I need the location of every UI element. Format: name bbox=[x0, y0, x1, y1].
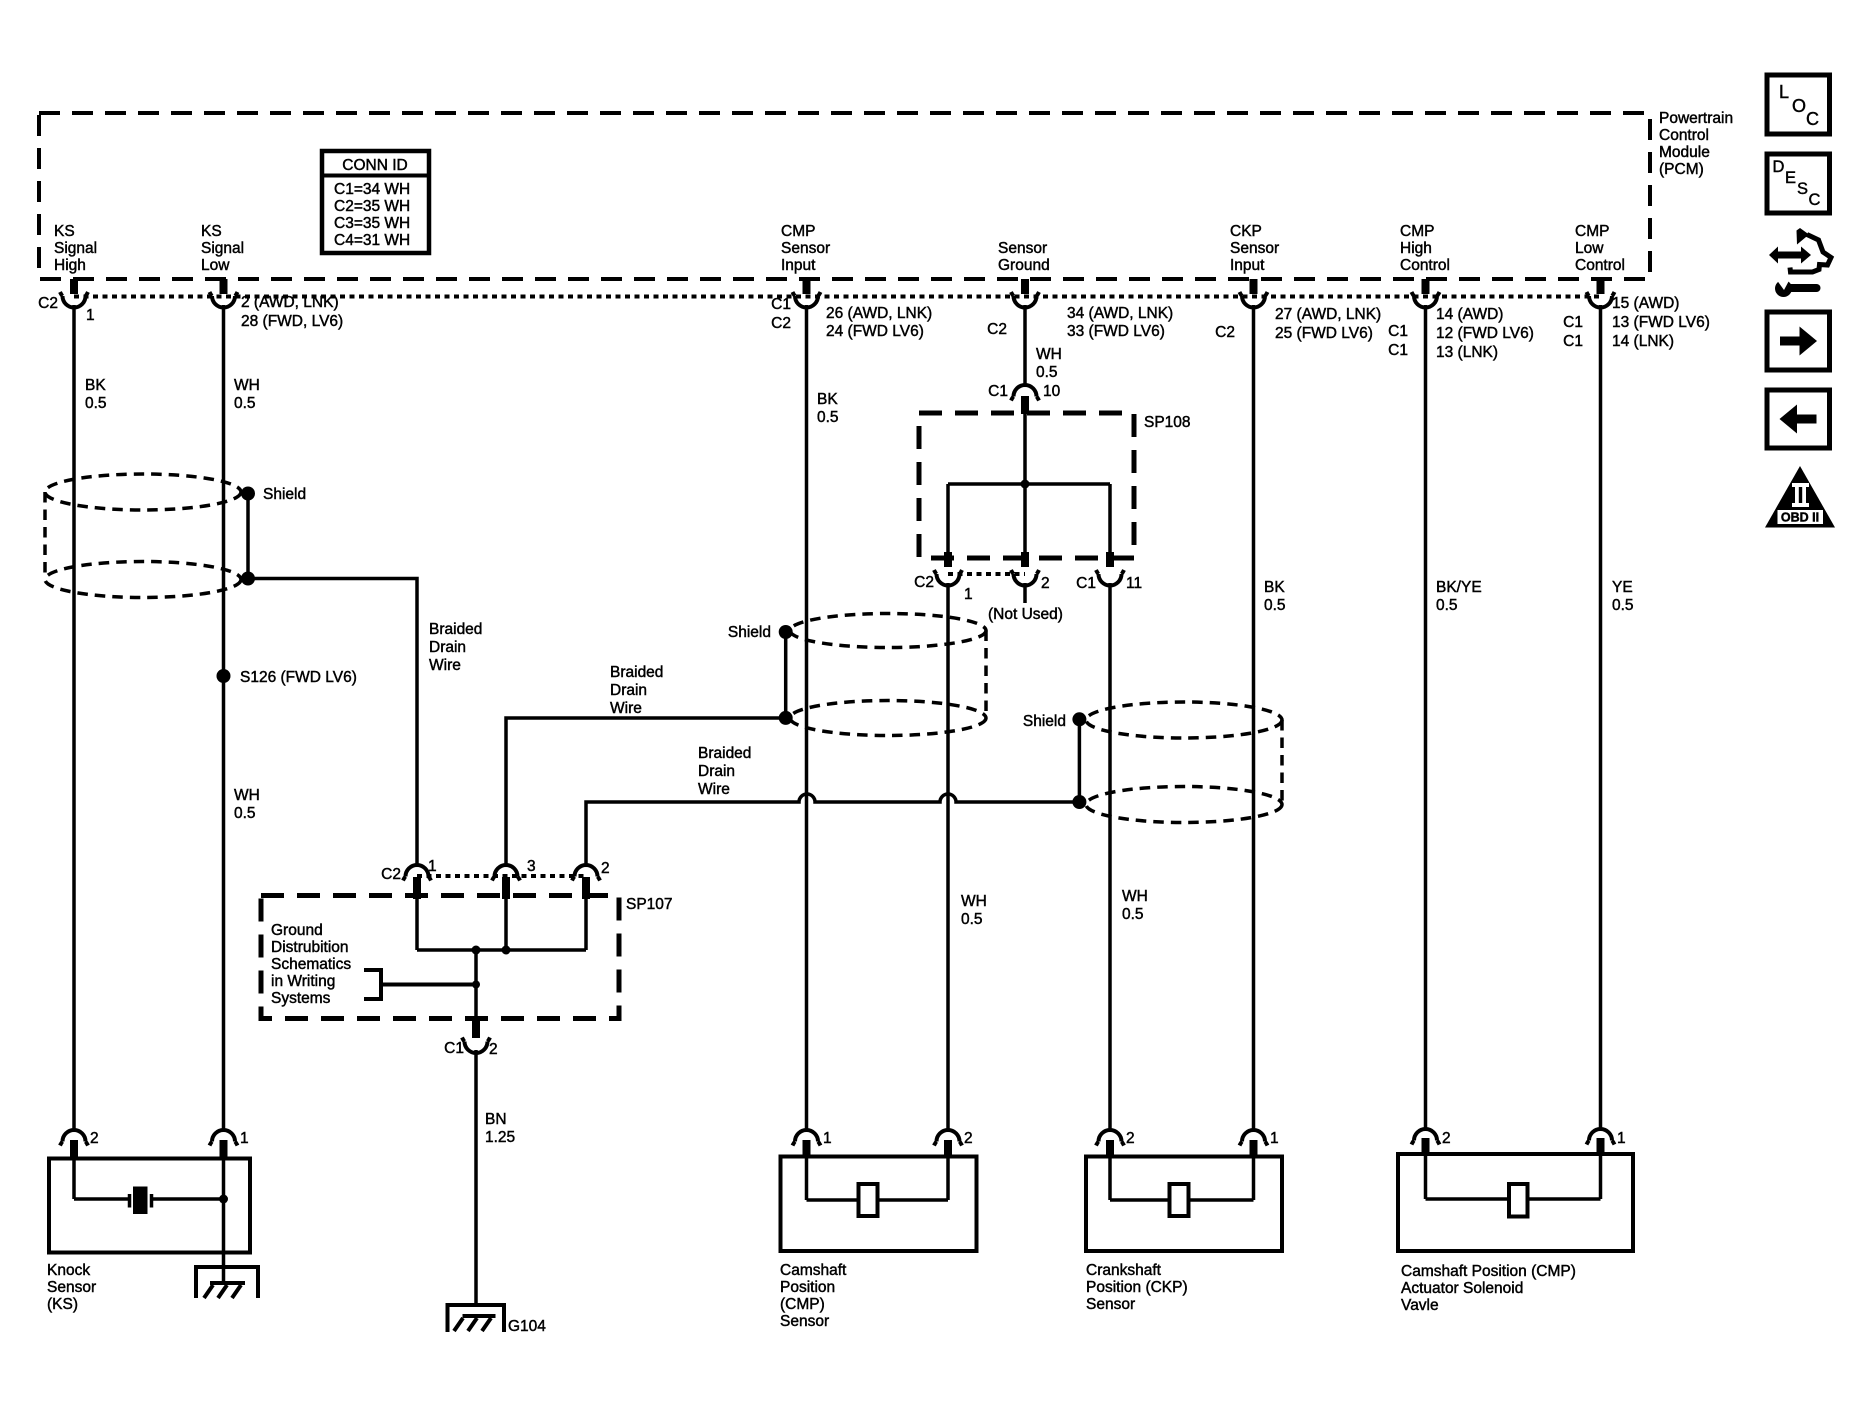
SP108 output pin C1-11 bbox=[1106, 552, 1114, 567]
svg-text:0.5: 0.5 bbox=[1036, 364, 1058, 381]
svg-text:Drain: Drain bbox=[610, 682, 647, 699]
svg-text:0.5: 0.5 bbox=[234, 805, 256, 822]
PCM connector pin C1 14/12/13 (CMP High Control) bbox=[1388, 279, 1534, 361]
svg-text:2: 2 bbox=[1442, 1130, 1451, 1147]
svg-text:C1: C1 bbox=[1076, 575, 1096, 592]
svg-text:Module: Module bbox=[1659, 144, 1710, 161]
CMP shield node dot (top) bbox=[779, 625, 793, 639]
svg-text:L: L bbox=[1779, 82, 1789, 102]
CMP Sensor connector terminal 2 bbox=[934, 1130, 973, 1157]
wire actuator internal horizontal right bbox=[1528, 1197, 1601, 1201]
pin function label CMP High Control bbox=[1400, 223, 1450, 274]
svg-text:C2: C2 bbox=[1215, 324, 1235, 341]
KS shield node dot (top) bbox=[241, 487, 255, 501]
KS cable shield dashed cylinder bbox=[45, 474, 241, 598]
svg-text:1: 1 bbox=[823, 1130, 832, 1147]
solenoid element bbox=[1509, 1184, 1528, 1217]
pin function label CMP Low Control bbox=[1575, 223, 1625, 274]
pin function label Sensor Ground bbox=[998, 240, 1050, 274]
wire SP108 left branch bbox=[946, 484, 950, 552]
svg-text:Knock: Knock bbox=[47, 1262, 90, 1279]
SP108 connector terminal 2 (Not Used) bbox=[1011, 570, 1050, 592]
svg-text:0.5: 0.5 bbox=[1436, 597, 1458, 614]
SP107 output connector C1 terminal 2 bbox=[444, 1021, 497, 1058]
label Camshaft Position (CMP) Sensor bbox=[780, 1262, 847, 1330]
svg-text:Signal: Signal bbox=[201, 240, 244, 257]
svg-text:C1: C1 bbox=[1563, 314, 1583, 331]
svg-text:C2: C2 bbox=[914, 574, 934, 591]
svg-text:KS: KS bbox=[201, 223, 222, 240]
svg-text:High: High bbox=[54, 257, 86, 274]
svg-text:CONN ID: CONN ID bbox=[342, 157, 407, 174]
svg-text:SP107: SP107 bbox=[626, 896, 673, 913]
SP108 connector C1 terminal 11 bbox=[1076, 570, 1142, 592]
svg-text:Distrubition: Distrubition bbox=[271, 939, 349, 956]
svg-text:Input: Input bbox=[1230, 257, 1265, 274]
svg-text:12 (FWD LV6): 12 (FWD LV6) bbox=[1436, 325, 1534, 342]
svg-text:C2=35 WH: C2=35 WH bbox=[334, 198, 410, 215]
svg-text:(PCM): (PCM) bbox=[1659, 161, 1704, 178]
svg-text:OBD II: OBD II bbox=[1781, 511, 1819, 525]
PCM connector pin C1/C2 26/24 (CMP Sensor Input) bbox=[771, 279, 932, 340]
svg-text:Low: Low bbox=[1575, 240, 1604, 257]
wire between CKP shield dots bbox=[1078, 719, 1082, 802]
svg-text:24 (FWD LV6): 24 (FWD LV6) bbox=[826, 323, 924, 340]
svg-text:C1: C1 bbox=[1388, 323, 1408, 340]
svg-text:2: 2 bbox=[489, 1041, 498, 1058]
svg-text:Wire: Wire bbox=[429, 657, 461, 674]
svg-text:1.25: 1.25 bbox=[485, 1129, 515, 1146]
wire label WH 0.5 bbox=[1036, 346, 1062, 381]
svg-text:13 (FWD LV6): 13 (FWD LV6) bbox=[1612, 314, 1710, 331]
KS shield node dot (bottom) bbox=[241, 572, 255, 586]
svg-text:11: 11 bbox=[1126, 575, 1142, 592]
svg-text:CMP: CMP bbox=[1575, 223, 1609, 240]
svg-text:D: D bbox=[1773, 158, 1785, 176]
svg-text:BN: BN bbox=[485, 1111, 507, 1128]
svg-text:C4=31 WH: C4=31 WH bbox=[334, 232, 410, 249]
svg-text:Shield: Shield bbox=[728, 624, 771, 641]
SP107 connector face dotted line bbox=[417, 874, 586, 878]
svg-text:(CMP): (CMP) bbox=[780, 1296, 825, 1313]
Knock Sensor connector terminal 1 bbox=[210, 1130, 249, 1159]
PCM module dashed box U1 bbox=[39, 113, 1650, 279]
CKP cable shield dashed cylinder bbox=[1086, 702, 1282, 823]
wire CKP internal horizontal left bbox=[1110, 1198, 1170, 1202]
wire CMP Sensor Input bbox=[805, 305, 809, 1129]
svg-text:2: 2 bbox=[601, 860, 610, 877]
svg-text:S: S bbox=[1797, 180, 1808, 198]
label Camshaft Position (CMP) Actuator Solenoid Vavle bbox=[1401, 1263, 1576, 1314]
svg-text:Ground: Ground bbox=[998, 257, 1050, 274]
svg-text:SP108: SP108 bbox=[1144, 414, 1191, 431]
svg-text:1: 1 bbox=[86, 307, 95, 324]
svg-text:Braided: Braided bbox=[429, 621, 482, 638]
wire label WH 0.5 bbox=[1122, 888, 1148, 923]
svg-text:Drain: Drain bbox=[698, 763, 735, 780]
svg-text:C1: C1 bbox=[988, 383, 1008, 400]
svg-text:C2: C2 bbox=[771, 315, 791, 332]
svg-text:2: 2 bbox=[1126, 1130, 1135, 1147]
svg-text:3: 3 bbox=[527, 858, 536, 875]
junction at KS pin 1 wire bbox=[219, 1195, 228, 1204]
svg-text:C2: C2 bbox=[381, 866, 401, 883]
svg-text:Signal: Signal bbox=[54, 240, 97, 257]
svg-text:Position: Position bbox=[780, 1279, 835, 1296]
svg-text:Shield: Shield bbox=[263, 486, 306, 503]
svg-text:BK/YE: BK/YE bbox=[1436, 579, 1482, 596]
junction in SP108 bbox=[1021, 480, 1030, 489]
svg-text:WH: WH bbox=[1122, 888, 1148, 905]
svg-text:Crankshaft: Crankshaft bbox=[1086, 1262, 1162, 1279]
svg-text:YE: YE bbox=[1612, 579, 1633, 596]
SP107 input connector terminal 3 bbox=[492, 858, 536, 899]
braided drain wire from CMP shield to SP107 terminal 3 bbox=[506, 718, 786, 864]
svg-text:2: 2 bbox=[964, 1130, 973, 1147]
piezo crystal element left plate bbox=[128, 1194, 132, 1208]
wire SP107 junction bus bbox=[417, 948, 586, 952]
pin function label CMP Sensor Input bbox=[781, 223, 830, 274]
svg-text:WH: WH bbox=[234, 787, 260, 804]
svg-text:Braided: Braided bbox=[610, 664, 663, 681]
CKP shield node dot (bottom) bbox=[1072, 795, 1086, 809]
note text Ground Distrubition Schematics in Writing Systems bbox=[271, 922, 351, 1007]
SP108 output pin 2 bbox=[1021, 552, 1029, 567]
svg-text:2: 2 bbox=[90, 1130, 99, 1147]
wire SP108 branch bus bbox=[948, 482, 1110, 486]
pin function label KS Signal High bbox=[54, 223, 97, 274]
wire label WH 0.5 bbox=[961, 893, 987, 928]
CMP Actuator connector terminal 2 bbox=[1412, 1129, 1451, 1156]
svg-text:C1: C1 bbox=[1388, 342, 1408, 359]
icon OBD II triangle bbox=[1765, 466, 1835, 528]
not used stub wire bbox=[1023, 583, 1027, 603]
svg-text:C1: C1 bbox=[771, 296, 791, 313]
svg-text:C: C bbox=[1809, 191, 1821, 209]
svg-text:Input: Input bbox=[781, 257, 816, 274]
wire sensor ground inside SP108 bbox=[1023, 413, 1027, 558]
svg-text:Vavle: Vavle bbox=[1401, 1297, 1439, 1314]
svg-text:13 (LNK): 13 (LNK) bbox=[1436, 344, 1498, 361]
wire CKP internal horizontal right bbox=[1189, 1198, 1254, 1202]
ground G104 bbox=[448, 1305, 547, 1335]
junction at terminal 3 drop bbox=[502, 946, 511, 955]
icon back arrow box bbox=[1767, 390, 1830, 448]
wire label BN 1.25 bbox=[485, 1111, 515, 1146]
svg-text:Drain: Drain bbox=[429, 639, 466, 656]
PCM connector pin C2 34/33 (Sensor Ground) bbox=[987, 279, 1173, 340]
svg-text:0.5: 0.5 bbox=[1122, 906, 1144, 923]
wire CKP pin 1 internal bbox=[1252, 1156, 1256, 1200]
piezo crystal element body bbox=[133, 1187, 148, 1215]
wire KS pin 1 to case ground bbox=[222, 1158, 226, 1283]
wire SP107 terminal 2 drop bbox=[584, 899, 588, 950]
svg-text:Position (CKP): Position (CKP) bbox=[1086, 1279, 1188, 1296]
svg-text:CMP: CMP bbox=[781, 223, 815, 240]
svg-text:14 (AWD): 14 (AWD) bbox=[1436, 306, 1503, 323]
svg-text:Camshaft Position (CMP): Camshaft Position (CMP) bbox=[1401, 1263, 1576, 1280]
wire SP107 terminal 3 drop bbox=[504, 899, 508, 950]
wire actuator pin 2 internal bbox=[1424, 1154, 1428, 1199]
svg-text:Control: Control bbox=[1400, 257, 1450, 274]
wire between CMP shield dots bbox=[784, 632, 788, 718]
junction with reference bracket bbox=[472, 981, 480, 989]
svg-text:Control: Control bbox=[1575, 257, 1625, 274]
svg-text:CMP: CMP bbox=[1400, 223, 1434, 240]
svg-text:1: 1 bbox=[1617, 1130, 1626, 1147]
svg-text:KS: KS bbox=[54, 223, 75, 240]
svg-text:C3=35 WH: C3=35 WH bbox=[334, 215, 410, 232]
svg-text:BK: BK bbox=[85, 377, 106, 394]
wire CKP Sensor Input bbox=[1252, 305, 1256, 1129]
PCM connector pin C2 27/25 (CKP Sensor Input) bbox=[1215, 279, 1381, 342]
ground wire BN 1.25 bbox=[474, 1050, 478, 1305]
junction at output drop bbox=[472, 946, 481, 955]
wire label WH 0.5 bbox=[234, 377, 260, 412]
svg-text:0.5: 0.5 bbox=[85, 395, 107, 412]
SP107 input connector terminal 2 bbox=[572, 860, 610, 899]
Knock Sensor connector terminal 2 bbox=[60, 1130, 99, 1159]
inline connector C1 pin 10 bbox=[988, 383, 1060, 414]
icon schematic navigation (double arrow, outline, wrench) bbox=[1769, 228, 1831, 297]
svg-text:0.5: 0.5 bbox=[234, 395, 256, 412]
CKP Sensor connector terminal 1 bbox=[1240, 1130, 1279, 1157]
pin function label KS Signal Low bbox=[201, 223, 244, 274]
svg-text:(Not Used): (Not Used) bbox=[988, 606, 1063, 623]
svg-text:1: 1 bbox=[964, 586, 973, 603]
svg-text:Sensor: Sensor bbox=[780, 1313, 829, 1330]
wire KS Signal Low bbox=[222, 305, 226, 1129]
svg-text:O: O bbox=[1792, 96, 1806, 116]
svg-text:Camshaft: Camshaft bbox=[780, 1262, 847, 1279]
svg-text:26 (AWD, LNK): 26 (AWD, LNK) bbox=[826, 305, 932, 322]
reference bracket to Ground Distribution Schematics note bbox=[364, 968, 476, 1001]
svg-text:Wire: Wire bbox=[610, 700, 642, 717]
wire label WH 0.5 (lower) bbox=[234, 787, 260, 822]
svg-text:C2: C2 bbox=[38, 295, 58, 312]
wire SP107 output drop bbox=[474, 950, 478, 1021]
svg-text:Sensor: Sensor bbox=[47, 1279, 96, 1296]
wire KS internal horizontal right bbox=[152, 1197, 224, 1201]
icon forward arrow box bbox=[1767, 312, 1830, 370]
svg-text:Sensor: Sensor bbox=[781, 240, 830, 257]
CMP Sensor connector terminal 1 bbox=[793, 1130, 832, 1157]
svg-text:Ground: Ground bbox=[271, 922, 323, 939]
wire KS pin 2 internal bbox=[72, 1158, 76, 1199]
svg-text:Sensor: Sensor bbox=[998, 240, 1047, 257]
wire KS internal horizontal left bbox=[74, 1197, 128, 1201]
svg-text:WH: WH bbox=[961, 893, 987, 910]
svg-text:10: 10 bbox=[1043, 383, 1061, 400]
svg-text:Systems: Systems bbox=[271, 990, 331, 1007]
svg-text:14 (LNK): 14 (LNK) bbox=[1612, 333, 1674, 350]
svg-text:WH: WH bbox=[1036, 346, 1062, 363]
wire CMP internal horizontal right bbox=[878, 1198, 949, 1202]
wire KS Signal High bbox=[72, 305, 76, 1129]
svg-text:C2: C2 bbox=[987, 321, 1007, 338]
svg-text:Control: Control bbox=[1659, 127, 1709, 144]
svg-text:Schematics: Schematics bbox=[271, 956, 351, 973]
svg-text:WH: WH bbox=[234, 377, 260, 394]
PCM connector pin C2-1 (KS Signal High) bbox=[38, 279, 94, 324]
svg-text:0.5: 0.5 bbox=[961, 911, 983, 928]
svg-text:25 (FWD LV6): 25 (FWD LV6) bbox=[1275, 325, 1373, 342]
wire label BK 0.5 bbox=[1264, 579, 1286, 614]
wire CMP pin 1 internal bbox=[805, 1156, 809, 1200]
svg-text:E: E bbox=[1785, 169, 1796, 187]
PCM connector pin 2/28 (KS Signal Low) bbox=[210, 279, 344, 330]
svg-text:1: 1 bbox=[428, 858, 437, 875]
svg-text:BK: BK bbox=[1264, 579, 1285, 596]
piezo crystal element right plate bbox=[150, 1194, 154, 1208]
svg-text:Actuator Solenoid: Actuator Solenoid bbox=[1401, 1280, 1523, 1297]
wire actuator pin 1 internal bbox=[1599, 1154, 1603, 1199]
CKP sensor element bbox=[1170, 1184, 1189, 1216]
svg-text:0.5: 0.5 bbox=[817, 409, 839, 426]
SP107 input connector C2 terminal 1 bbox=[381, 858, 436, 899]
svg-text:Low: Low bbox=[201, 257, 230, 274]
wire CKP pin 2 internal bbox=[1108, 1156, 1112, 1200]
wire Sensor Ground upper segment bbox=[1023, 305, 1027, 384]
svg-text:27 (AWD, LNK): 27 (AWD, LNK) bbox=[1275, 306, 1381, 323]
svg-text:Sensor: Sensor bbox=[1086, 1296, 1135, 1313]
CMP shield node dot (bottom) bbox=[779, 711, 793, 725]
wire label BK 0.5 bbox=[85, 377, 107, 412]
wire SP107 terminal 1 drop bbox=[415, 899, 419, 950]
svg-text:Sensor: Sensor bbox=[1230, 240, 1279, 257]
svg-text:BK: BK bbox=[817, 391, 838, 408]
wire CMP internal horizontal left bbox=[807, 1198, 859, 1202]
svg-text:in Writing: in Writing bbox=[271, 973, 335, 990]
knock sensor case ground symbol bbox=[196, 1267, 258, 1298]
svg-text:C1=34 WH: C1=34 WH bbox=[334, 181, 410, 198]
svg-text:C1: C1 bbox=[1563, 333, 1583, 350]
wire CMP High Control bbox=[1424, 305, 1428, 1128]
wire label BK/YE 0.5 bbox=[1436, 579, 1482, 614]
svg-text:C: C bbox=[1806, 109, 1819, 129]
svg-text:Braided: Braided bbox=[698, 745, 751, 762]
splice S126 on KS Signal Low wire bbox=[217, 669, 357, 686]
PCM connector face dotted line bbox=[74, 295, 1600, 299]
CMP Actuator connector terminal 1 bbox=[1587, 1129, 1626, 1156]
SP108 connector C2 terminal 1 bbox=[914, 570, 972, 603]
svg-text:C1: C1 bbox=[444, 1040, 464, 1057]
pin function label CKP Sensor Input bbox=[1230, 223, 1279, 274]
svg-text:33 (FWD LV6): 33 (FWD LV6) bbox=[1067, 323, 1165, 340]
svg-text:0.5: 0.5 bbox=[1612, 597, 1634, 614]
SP108 connector face dotted line bbox=[948, 572, 1025, 576]
CKP shield node dot (top) bbox=[1072, 712, 1086, 726]
svg-text:Wire: Wire bbox=[698, 781, 730, 798]
Crankshaft Position (CKP) Sensor box bbox=[1086, 1157, 1282, 1252]
label Knock Sensor (KS) bbox=[47, 1262, 96, 1313]
Camshaft Position (CMP) Actuator Solenoid Valve box bbox=[1398, 1154, 1633, 1251]
wire CKP sensor ground branch bbox=[1108, 583, 1112, 1129]
CKP Sensor connector terminal 2 bbox=[1096, 1130, 1135, 1157]
icon DESC box bbox=[1767, 154, 1830, 213]
svg-text:S126 (FWD LV6): S126 (FWD LV6) bbox=[240, 669, 357, 686]
svg-text:Shield: Shield bbox=[1023, 713, 1066, 730]
svg-text:CKP: CKP bbox=[1230, 223, 1262, 240]
splice pack SP107 dashed box bbox=[261, 896, 619, 1019]
wire label YE 0.5 bbox=[1612, 579, 1634, 614]
braided drain wire from CKP shield to SP107 terminal 2 with wire hops bbox=[586, 794, 1079, 864]
svg-text:1: 1 bbox=[240, 1130, 249, 1147]
svg-text:1: 1 bbox=[1270, 1130, 1279, 1147]
label Crankshaft Position (CKP) Sensor bbox=[1086, 1262, 1188, 1313]
label Braided Drain Wire bbox=[610, 664, 663, 717]
svg-text:28 (FWD, LV6): 28 (FWD, LV6) bbox=[241, 313, 343, 330]
wire actuator internal horizontal left bbox=[1426, 1197, 1510, 1201]
wire CMP pin 2 internal bbox=[946, 1156, 950, 1200]
SP108 output pin C2-1 bbox=[944, 552, 952, 567]
braided drain wire from KS shield to SP107 terminal 1 bbox=[248, 579, 417, 865]
label Powertrain Control Module (PCM) bbox=[1659, 110, 1733, 178]
label Braided Drain Wire bbox=[429, 621, 482, 674]
icon LOC box bbox=[1767, 75, 1830, 134]
svg-text:0.5: 0.5 bbox=[1264, 597, 1286, 614]
wire between KS shield dots bbox=[246, 494, 250, 579]
svg-text:2 (AWD, LNK): 2 (AWD, LNK) bbox=[241, 294, 339, 311]
CONN ID table bbox=[322, 151, 429, 253]
splice pack SP108 dashed box bbox=[919, 413, 1134, 558]
wire SP108 right branch bbox=[1108, 484, 1112, 552]
svg-text:G104: G104 bbox=[508, 1318, 546, 1335]
PCM connector pin C1 15/13/14 (CMP Low Control) bbox=[1563, 279, 1710, 350]
svg-text:2: 2 bbox=[1041, 575, 1050, 592]
svg-text:(KS): (KS) bbox=[47, 1296, 78, 1313]
wire CMP Low Control bbox=[1599, 305, 1603, 1128]
Knock Sensor (KS) box bbox=[49, 1159, 250, 1253]
label Braided Drain Wire bbox=[698, 745, 751, 798]
Camshaft Position (CMP) Sensor box bbox=[781, 1157, 977, 1252]
wire label BK 0.5 bbox=[817, 391, 839, 426]
svg-text:High: High bbox=[1400, 240, 1432, 257]
svg-text:Powertrain: Powertrain bbox=[1659, 110, 1733, 127]
svg-text:15 (AWD): 15 (AWD) bbox=[1612, 295, 1679, 312]
svg-text:34 (AWD, LNK): 34 (AWD, LNK) bbox=[1067, 305, 1173, 322]
CMP sensor element bbox=[859, 1184, 878, 1216]
CMP cable shield dashed cylinder bbox=[790, 614, 986, 736]
wire CMP sensor ground branch bbox=[946, 583, 950, 1129]
